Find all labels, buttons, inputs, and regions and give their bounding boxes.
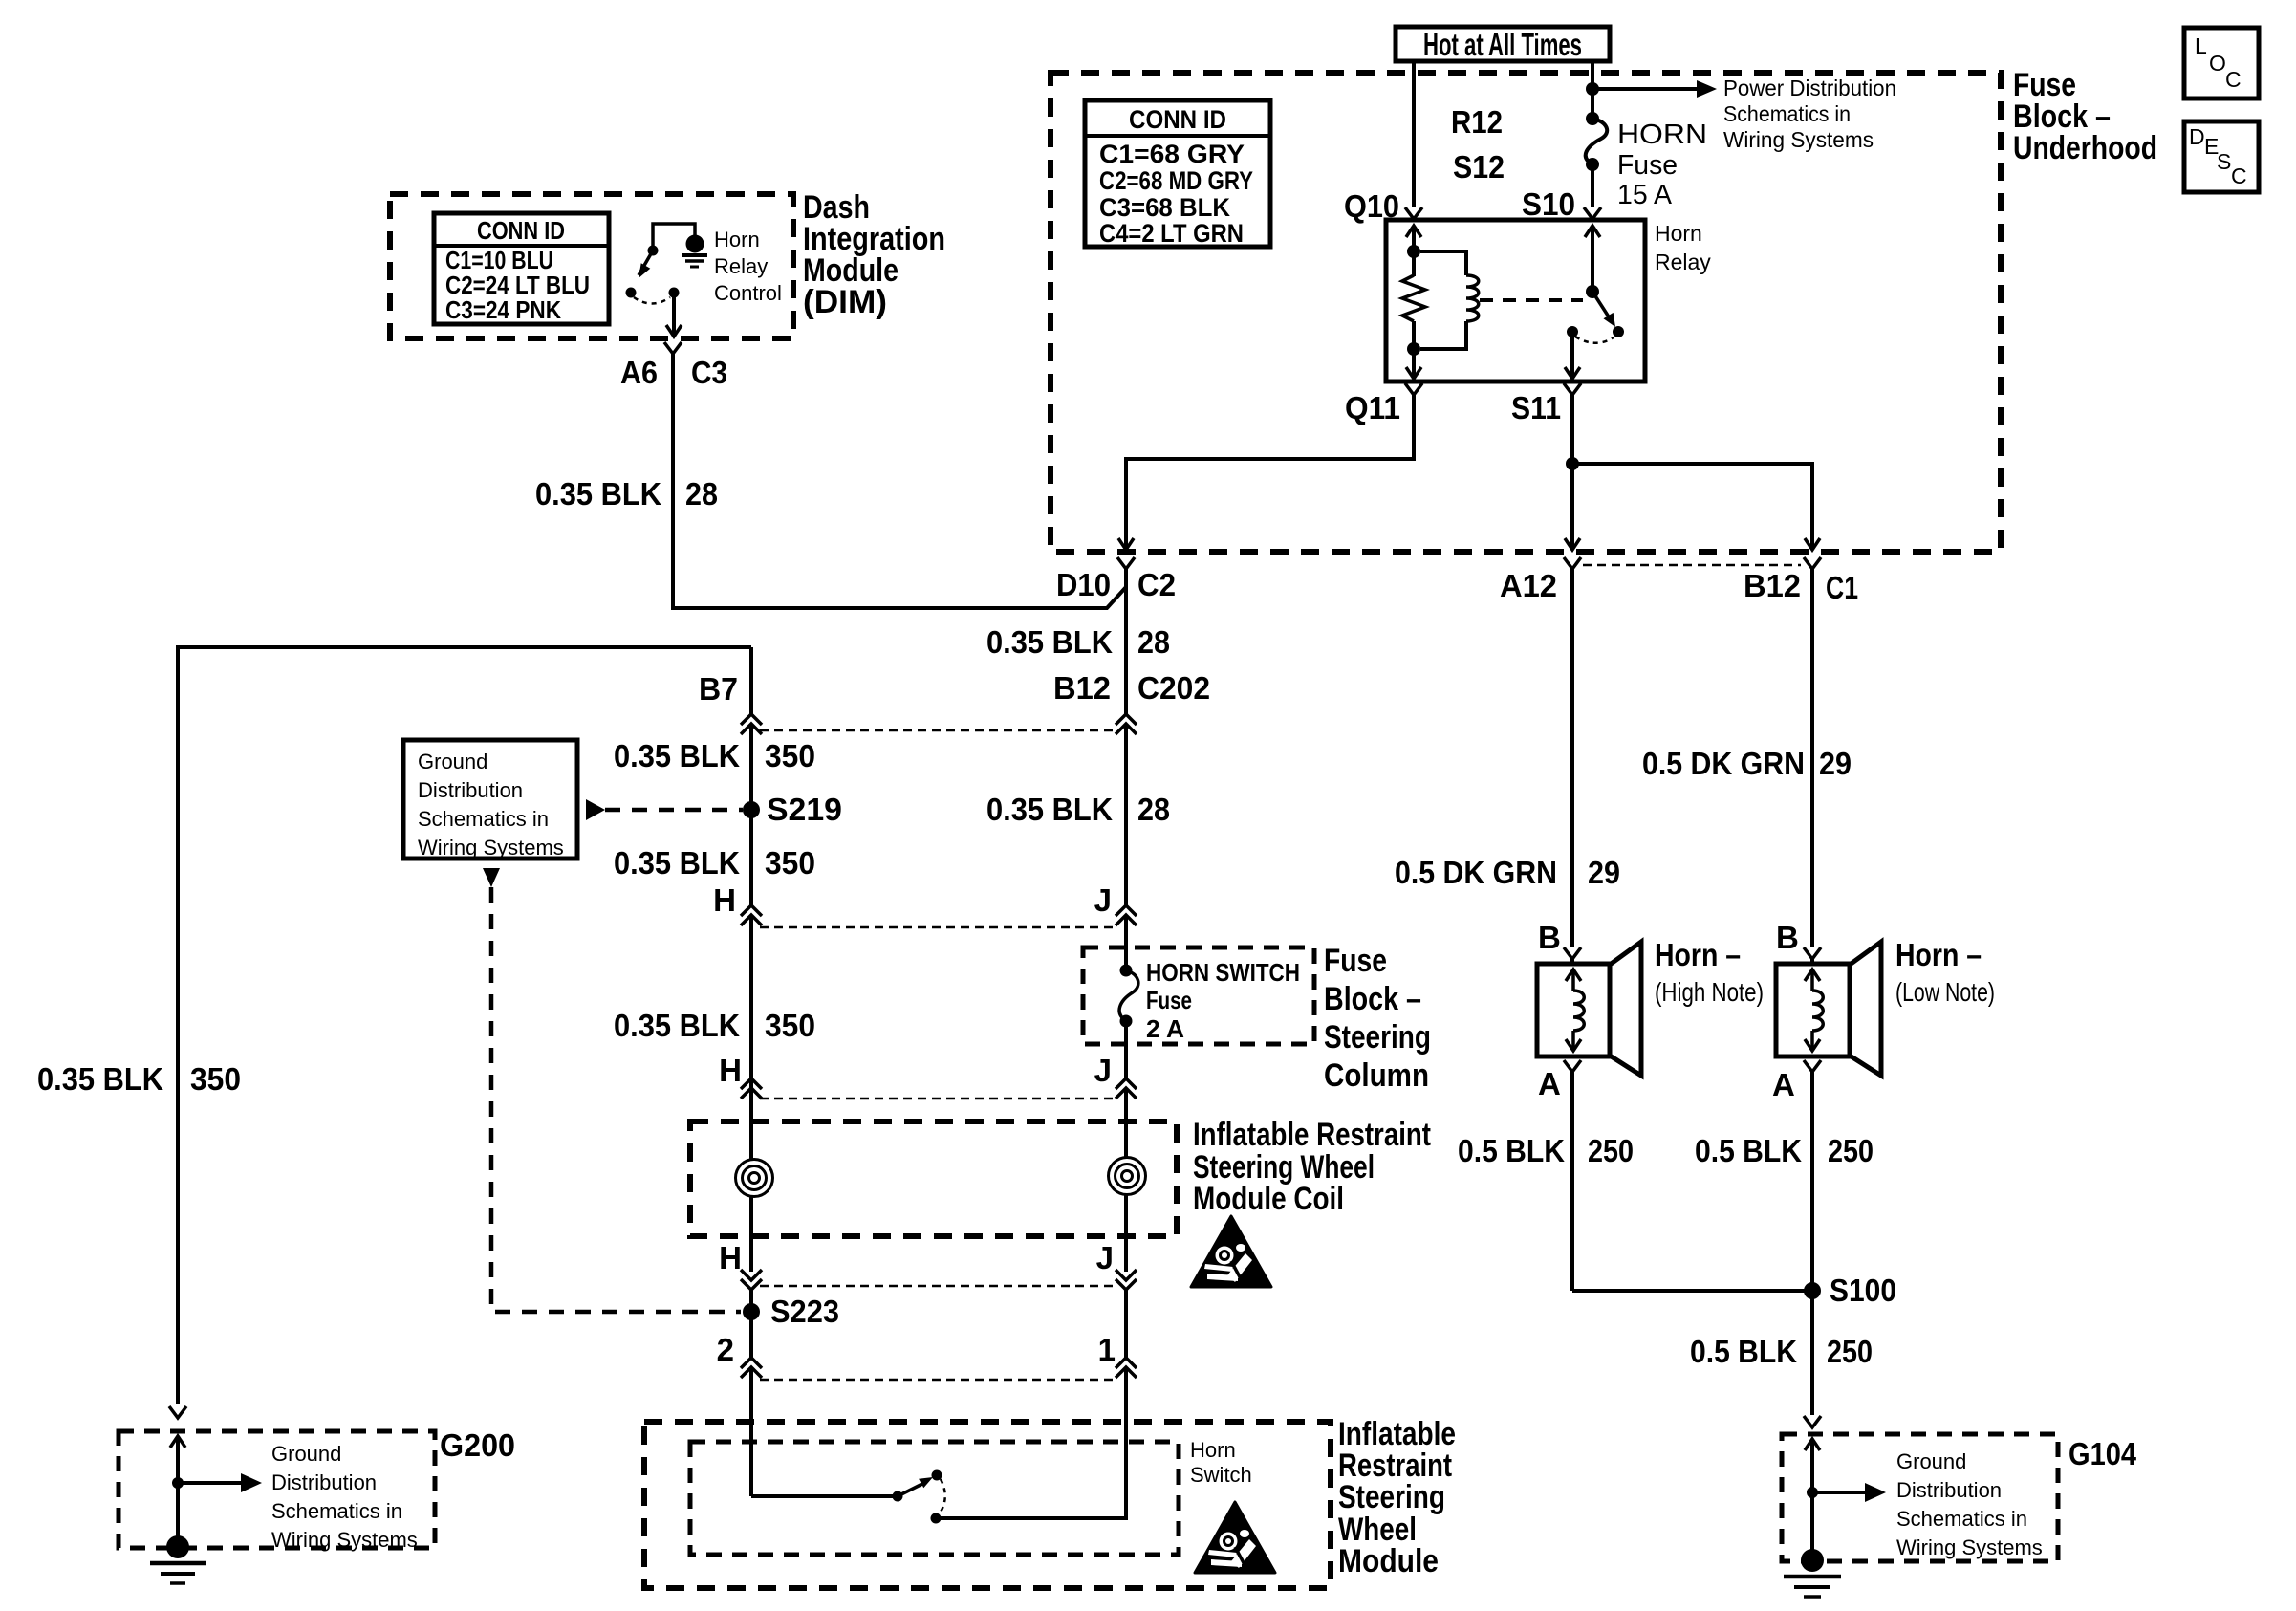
svg-text:S223: S223 bbox=[770, 1294, 839, 1329]
svg-text:C2=68 MD GRY: C2=68 MD GRY bbox=[1099, 166, 1253, 195]
svg-text:Wiring Systems: Wiring Systems bbox=[1723, 127, 1874, 152]
svg-text:2: 2 bbox=[717, 1332, 734, 1367]
svg-text:H: H bbox=[719, 1053, 742, 1088]
svg-text:350: 350 bbox=[190, 1061, 241, 1097]
svg-text:Hot at All Times: Hot at All Times bbox=[1423, 27, 1582, 62]
svg-text:Inflatable Restraint: Inflatable Restraint bbox=[1193, 1117, 1431, 1153]
svg-text:0.35 BLK: 0.35 BLK bbox=[614, 1008, 740, 1043]
svg-text:Distribution: Distribution bbox=[271, 1470, 377, 1494]
svg-text:Steering: Steering bbox=[1338, 1479, 1445, 1515]
svg-text:Control: Control bbox=[714, 281, 782, 305]
svg-text:Underhood: Underhood bbox=[2013, 130, 2157, 166]
svg-text:C3: C3 bbox=[691, 355, 727, 390]
svg-text:C: C bbox=[2225, 67, 2242, 92]
svg-text:L: L bbox=[2195, 33, 2207, 58]
svg-text:S12: S12 bbox=[1453, 149, 1505, 185]
svg-text:Ground: Ground bbox=[271, 1442, 341, 1466]
svg-text:B: B bbox=[1776, 920, 1799, 955]
svg-text:0.35 BLK: 0.35 BLK bbox=[986, 624, 1113, 660]
svg-text:Power Distribution: Power Distribution bbox=[1723, 76, 1896, 100]
svg-text:250: 250 bbox=[1827, 1334, 1873, 1369]
svg-text:B12: B12 bbox=[1744, 568, 1801, 603]
svg-text:G200: G200 bbox=[440, 1427, 515, 1463]
svg-text:Horn: Horn bbox=[1190, 1438, 1236, 1462]
svg-text:0.35 BLK: 0.35 BLK bbox=[535, 476, 661, 512]
svg-text:0.35 BLK: 0.35 BLK bbox=[37, 1061, 163, 1097]
svg-text:0.5 BLK: 0.5 BLK bbox=[1458, 1133, 1565, 1168]
svg-text:28: 28 bbox=[685, 476, 718, 512]
svg-text:Switch: Switch bbox=[1190, 1463, 1252, 1487]
svg-text:350: 350 bbox=[765, 738, 815, 773]
svg-text:0.5 DK GRN: 0.5 DK GRN bbox=[1395, 855, 1557, 890]
svg-text:2 A: 2 A bbox=[1146, 1014, 1184, 1043]
svg-text:G104: G104 bbox=[2069, 1436, 2137, 1471]
svg-text:D10: D10 bbox=[1056, 567, 1111, 602]
svg-text:Ground: Ground bbox=[418, 750, 487, 773]
svg-text:CONN ID: CONN ID bbox=[1129, 105, 1226, 134]
svg-text:Wiring Systems: Wiring Systems bbox=[1896, 1535, 2043, 1559]
svg-text:A: A bbox=[1772, 1067, 1795, 1102]
svg-text:Q11: Q11 bbox=[1345, 390, 1400, 425]
svg-text:Schematics in: Schematics in bbox=[1723, 101, 1851, 126]
svg-text:Fuse: Fuse bbox=[1324, 943, 1387, 979]
svg-text:J: J bbox=[1094, 882, 1112, 918]
svg-text:0.35 BLK: 0.35 BLK bbox=[986, 792, 1113, 827]
svg-text:O: O bbox=[2209, 51, 2226, 76]
svg-text:C3=24 PNK: C3=24 PNK bbox=[445, 295, 561, 324]
svg-text:Fuse: Fuse bbox=[1146, 986, 1192, 1014]
svg-text:B: B bbox=[1538, 920, 1561, 955]
svg-text:Block –: Block – bbox=[1324, 981, 1421, 1017]
svg-text:(High Note): (High Note) bbox=[1655, 977, 1764, 1007]
svg-text:A12: A12 bbox=[1500, 568, 1557, 603]
svg-text:15 A: 15 A bbox=[1617, 180, 1673, 210]
svg-text:Horn: Horn bbox=[1655, 221, 1702, 246]
svg-text:Relay: Relay bbox=[1655, 250, 1711, 274]
svg-text:0.35 BLK: 0.35 BLK bbox=[614, 845, 740, 881]
svg-text:S10: S10 bbox=[1522, 186, 1575, 222]
svg-text:Module: Module bbox=[1338, 1543, 1439, 1579]
svg-text:29: 29 bbox=[1819, 746, 1852, 781]
svg-text:350: 350 bbox=[765, 1008, 815, 1043]
svg-text:C: C bbox=[2231, 163, 2247, 188]
svg-text:28: 28 bbox=[1137, 624, 1170, 660]
svg-text:29: 29 bbox=[1588, 855, 1620, 890]
svg-text:C3=68 BLK: C3=68 BLK bbox=[1099, 193, 1230, 222]
svg-text:C4=2 LT GRN: C4=2 LT GRN bbox=[1099, 219, 1244, 248]
svg-text:J: J bbox=[1096, 1240, 1114, 1275]
svg-text:B12: B12 bbox=[1053, 670, 1111, 706]
svg-text:HORN: HORN bbox=[1617, 120, 1707, 150]
svg-text:Column: Column bbox=[1324, 1057, 1429, 1094]
svg-text:250: 250 bbox=[1828, 1133, 1874, 1168]
svg-text:(DIM): (DIM) bbox=[803, 284, 887, 320]
svg-text:CONN ID: CONN ID bbox=[477, 216, 565, 245]
svg-text:S: S bbox=[2217, 149, 2231, 174]
svg-text:0.5 BLK: 0.5 BLK bbox=[1695, 1133, 1802, 1168]
svg-text:Module Coil: Module Coil bbox=[1193, 1181, 1344, 1217]
svg-text:C2: C2 bbox=[1137, 567, 1176, 602]
svg-text:0.35 BLK: 0.35 BLK bbox=[614, 738, 740, 773]
svg-text:S219: S219 bbox=[767, 792, 842, 827]
svg-text:J: J bbox=[1094, 1053, 1112, 1088]
svg-text:B7: B7 bbox=[699, 671, 738, 707]
svg-text:A: A bbox=[1538, 1066, 1561, 1101]
svg-text:D: D bbox=[2189, 124, 2205, 149]
svg-text:Relay: Relay bbox=[714, 254, 768, 278]
svg-text:Horn –: Horn – bbox=[1655, 937, 1741, 972]
svg-text:Distribution: Distribution bbox=[418, 778, 523, 802]
svg-text:Fuse: Fuse bbox=[1617, 150, 1678, 181]
svg-text:Wiring Systems: Wiring Systems bbox=[418, 836, 564, 860]
svg-text:Schematics in: Schematics in bbox=[418, 807, 549, 831]
svg-text:Horn –: Horn – bbox=[1895, 937, 1982, 972]
svg-text:1: 1 bbox=[1098, 1332, 1116, 1367]
svg-text:Steering: Steering bbox=[1324, 1019, 1431, 1056]
svg-text:350: 350 bbox=[765, 845, 815, 881]
svg-text:Horn: Horn bbox=[714, 228, 760, 251]
svg-text:28: 28 bbox=[1137, 792, 1170, 827]
svg-text:H: H bbox=[713, 882, 736, 918]
svg-text:(Low Note): (Low Note) bbox=[1895, 977, 1995, 1007]
svg-text:S11: S11 bbox=[1511, 390, 1561, 425]
svg-text:C1: C1 bbox=[1826, 570, 1858, 605]
svg-text:A6: A6 bbox=[620, 355, 658, 390]
svg-text:C1=68 GRY: C1=68 GRY bbox=[1099, 140, 1245, 168]
svg-text:C202: C202 bbox=[1137, 670, 1210, 706]
svg-text:R12: R12 bbox=[1451, 104, 1503, 140]
svg-text:H: H bbox=[719, 1240, 742, 1275]
svg-text:0.5 DK GRN: 0.5 DK GRN bbox=[1642, 746, 1805, 781]
svg-text:S100: S100 bbox=[1830, 1273, 1896, 1308]
svg-text:HORN SWITCH: HORN SWITCH bbox=[1146, 958, 1300, 987]
svg-text:250: 250 bbox=[1588, 1133, 1634, 1168]
svg-text:Wiring Systems: Wiring Systems bbox=[271, 1528, 418, 1552]
svg-text:0.5 BLK: 0.5 BLK bbox=[1690, 1334, 1797, 1369]
svg-text:Schematics in: Schematics in bbox=[271, 1499, 402, 1523]
svg-text:Ground: Ground bbox=[1896, 1449, 1966, 1473]
svg-text:Schematics in: Schematics in bbox=[1896, 1507, 2027, 1531]
svg-text:Distribution: Distribution bbox=[1896, 1478, 2002, 1502]
